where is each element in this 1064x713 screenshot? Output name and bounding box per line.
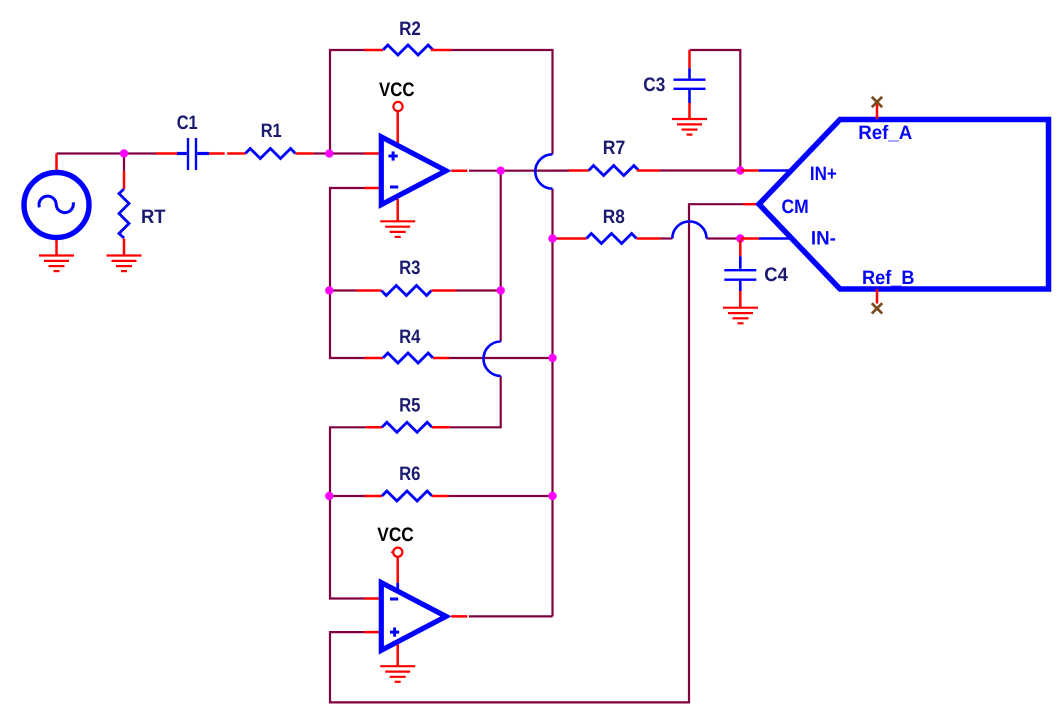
ADC device U3 outline [759, 120, 1049, 290]
op-amp U1 [365, 111, 468, 221]
svg-text:R3: R3 [399, 257, 421, 279]
svg-text:R7: R7 [603, 137, 626, 159]
svg-text:Ref_B: Ref_B [862, 267, 915, 289]
ground below op-amp U2 [380, 666, 415, 682]
ground below op-amp U1 [380, 221, 415, 237]
op-amp U2 [365, 557, 468, 666]
wire: R7 right to IN+ junction [660, 169, 741, 171]
node junction: R3 left [325, 286, 333, 294]
svg-text:R1: R1 [261, 120, 282, 142]
pin stub: IN- red [741, 237, 759, 240]
node junction: R6 left [325, 492, 333, 500]
node junction: opamp1 output [497, 167, 505, 175]
pin wire: IN- blue [759, 237, 792, 239]
resistor R3 [357, 286, 457, 296]
wire: opamp1 minus input loop down to R4 [330, 188, 365, 358]
wire: R1 to +input junction [313, 152, 364, 154]
pin wire: IN+ blue [759, 169, 791, 171]
wire: top feedback net from R2 left vertical [330, 50, 365, 154]
svg-text:IN-: IN- [811, 228, 836, 250]
ground below source [39, 256, 74, 272]
resistor R5 [366, 422, 450, 432]
wire: R2 right to x552 column top [451, 50, 553, 154]
wire: R6 row right [448, 495, 552, 497]
node junction: opamp1 plus input [325, 149, 333, 157]
resistor R6 [365, 491, 449, 501]
resistor R4 [365, 353, 450, 363]
pin stub: IN+ red [741, 169, 759, 172]
ground below RT [107, 256, 142, 272]
ground below C4 [723, 308, 758, 324]
node junction: IN- / C4 tap [736, 234, 744, 242]
svg-text:VCC: VCC [377, 524, 414, 546]
wire: R5 row left vertical down to opamp2 minus [330, 427, 366, 598]
pin stub: Ref_B red [876, 289, 879, 304]
resistor R8 [558, 234, 660, 244]
svg-text:R4: R4 [399, 326, 421, 348]
wire hop: x552 column over R7 row [535, 154, 552, 188]
wire hop: x500 column over R4 row [484, 342, 501, 376]
svg-text:C4: C4 [764, 264, 788, 286]
power VCC2 terminal [391, 548, 402, 557]
svg-text:R2: R2 [399, 18, 421, 40]
wire: R4 row right to x552 [449, 357, 553, 359]
node junction: R6 right [548, 492, 556, 500]
wire: R3 row right [456, 289, 501, 291]
wire: opamp1 output to mid column [469, 170, 501, 172]
pin stub: Ref_A red [876, 104, 879, 119]
wire: RT top maroon segment [123, 154, 125, 172]
wire hop: R8 row over CM loop vertical [672, 221, 706, 238]
resistor RT [119, 171, 129, 255]
wire: source to C1 [57, 152, 157, 154]
resistor R7 [569, 166, 660, 176]
no-connect X at Ref_B [872, 303, 882, 313]
node junction: R8 left on x552 [548, 234, 556, 242]
power VCC1 terminal [393, 102, 402, 111]
wire: R7 row from junction to resistor [501, 170, 569, 172]
wire: R8 hop to IN- junction [707, 237, 741, 239]
node junction: R4 right on x552 [548, 354, 556, 362]
svg-text:R6: R6 [399, 463, 421, 485]
ground below C3 [672, 119, 707, 135]
svg-text:CM: CM [782, 196, 809, 218]
capacitor C1 [156, 138, 225, 170]
svg-text:RT: RT [141, 206, 166, 228]
wire: CM loop long wire [330, 204, 744, 702]
svg-text:VCC: VCC [379, 79, 415, 101]
node junction: IN+ / C3 tap [736, 166, 744, 174]
wire: R3 row left [330, 289, 357, 291]
wire: R8 right to hop [660, 237, 672, 239]
resistor R1 [227, 149, 313, 159]
svg-text:R8: R8 [603, 206, 625, 228]
wire: x552 column lower part [551, 189, 553, 617]
svg-text:C1: C1 [177, 112, 198, 134]
voltage source VS1 [24, 154, 89, 256]
svg-text:R5: R5 [399, 394, 421, 416]
no-connect X at Ref_A [872, 97, 882, 107]
wire: R8 left from x552 junction [553, 237, 559, 239]
wire: opamp2 output to x552 column [469, 615, 553, 617]
pin stub: CM red [744, 203, 760, 206]
node junction: R3 right [497, 286, 505, 294]
wire: C3 branch vertical and top [690, 50, 741, 171]
node junction: RT tap [120, 149, 128, 157]
resistor R2 [364, 45, 451, 55]
svg-text:Ref_A: Ref_A [858, 122, 912, 144]
svg-text:C3: C3 [643, 74, 665, 96]
svg-text:IN+: IN+ [810, 163, 837, 185]
capacitor C3 [674, 50, 706, 119]
capacitor C4 [724, 240, 756, 307]
wire: mid column x500 below arc to R5 [450, 376, 501, 427]
wire: R6 row left [330, 495, 365, 497]
wire: mid column x500 down to arc [500, 171, 502, 342]
